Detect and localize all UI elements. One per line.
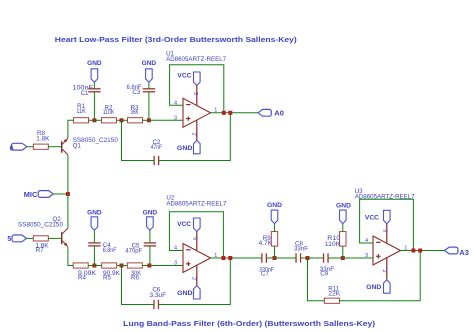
svg-text:6.8nF: 6.8nF [103, 247, 117, 254]
label 33nF C8 [294, 246, 308, 253]
label C3 [132, 89, 140, 96]
svg-text:4: 4 [174, 246, 177, 252]
wire C4-GND stub [93, 230, 95, 243]
label 1.8K R8 [36, 136, 50, 143]
wire MIC-node [53, 193, 68, 195]
svg-text:GND: GND [177, 145, 193, 152]
svg-text:GND: GND [336, 202, 351, 209]
svg-text:R6: R6 [131, 275, 139, 282]
wire node R10-U3 pin3 [343, 257, 373, 259]
resistor R9 [271, 232, 277, 247]
label R9 [263, 235, 271, 242]
node n3b junction [147, 264, 151, 268]
wire MIC node-Q2 collector [67, 194, 69, 228]
ground GND symbol U2 [194, 286, 201, 300]
capacitor C1 branch wire [93, 92, 95, 121]
pin 2 label U3 [381, 269, 387, 272]
svg-text:3: 3 [365, 253, 368, 259]
node n3 junction [147, 118, 151, 122]
junction U1 out rail [222, 111, 226, 115]
label 330nF [259, 266, 274, 273]
svg-text:33nF: 33nF [294, 246, 308, 253]
node n2b junction [120, 264, 124, 268]
ground GND symbol U3 [384, 280, 391, 294]
label Q2 [53, 216, 62, 223]
title Heart Low-Pass Filter [55, 35, 298, 44]
svg-text:47nF: 47nF [151, 144, 162, 151]
svg-text:2: 2 [190, 277, 196, 280]
label C2 [152, 139, 160, 146]
wire node3-U1 pin3 [149, 119, 183, 121]
pin 4 label U2 [174, 246, 177, 252]
capacitor C4 [88, 243, 100, 246]
wire C7-node R9 [266, 257, 274, 259]
pin 4 label U3 [365, 238, 368, 244]
junction U3 out rail [411, 249, 415, 253]
op-amp U2 [183, 244, 211, 273]
capacitor C9 [324, 253, 329, 262]
label A0 [274, 110, 284, 117]
wire R6-node3b [142, 265, 150, 267]
pin 3 label U1 [174, 115, 177, 121]
svg-text:4.7K: 4.7K [259, 240, 273, 247]
svg-text:5: 5 [381, 229, 387, 232]
pin 2 stub U2 [196, 265, 198, 285]
label 47nF [151, 144, 162, 151]
pin 5 stub U1 [196, 86, 198, 106]
svg-text:C7: C7 [261, 271, 269, 278]
op-amp U3 [373, 236, 401, 265]
wire U1 output [211, 112, 259, 114]
svg-text:GND: GND [366, 284, 381, 291]
wire port5-R7 [27, 237, 34, 239]
label 9.09K [78, 270, 97, 277]
wire R7-Q2 base [48, 237, 61, 239]
svg-text:4: 4 [365, 238, 368, 244]
svg-text:C3: C3 [132, 89, 140, 96]
svg-text:1.8K: 1.8K [36, 136, 50, 143]
wire node-C9 [308, 257, 324, 259]
label SS8050_C2150 Q2 [18, 221, 64, 228]
wire Q1 collector to R1 [68, 120, 74, 138]
svg-text:36K: 36K [130, 109, 139, 116]
node R10 junction [341, 256, 345, 260]
capacitor C4 branch wire [93, 246, 95, 266]
ground GND above C1 [91, 69, 98, 83]
label R5 [103, 275, 111, 282]
svg-text:6: 6 [10, 146, 14, 153]
label U3 [355, 188, 363, 195]
ground GND above C5 [147, 217, 154, 231]
label GND U2 [177, 290, 193, 297]
svg-text:Q1: Q1 [73, 142, 82, 149]
pin 1 label U2 [214, 253, 217, 259]
wire R4-node1b [88, 265, 94, 267]
svg-text:5: 5 [191, 237, 197, 240]
label 6.8nF C4 [103, 247, 117, 254]
svg-text:GND: GND [142, 60, 157, 67]
wire node1-R2 [94, 119, 101, 121]
label C7 [261, 271, 269, 278]
svg-text:3.3uF: 3.3uF [150, 292, 167, 299]
pin 2 stub U3 [386, 258, 388, 280]
wire C1-GND stub [93, 82, 95, 89]
svg-text:GND: GND [267, 202, 282, 209]
wire Q2 emitter to R4 [68, 247, 73, 266]
label R8 [37, 130, 45, 137]
pin 4 label U1 [174, 100, 177, 106]
label GND C3 [142, 60, 157, 67]
label 100nF [73, 84, 94, 91]
wire node2-R3 [122, 119, 128, 121]
transistor Q1 [62, 138, 68, 155]
pin 5 stub U3 [386, 224, 388, 243]
svg-text:2: 2 [381, 269, 387, 272]
junction U1 out C2 [228, 111, 232, 115]
label 6.8nF [127, 84, 142, 91]
svg-text:VCC: VCC [365, 215, 379, 222]
pin 3 label U2 [174, 261, 177, 267]
label GND R9 [267, 202, 282, 209]
svg-text:R4: R4 [78, 275, 86, 282]
port 5 [7, 235, 26, 243]
port A3 [445, 247, 458, 254]
label 22K [328, 290, 341, 297]
ground GND above R10 [340, 210, 347, 224]
pin 2 label U1 [191, 133, 197, 136]
svg-text:3: 3 [174, 261, 177, 267]
label VCC U3 [365, 215, 379, 222]
capacitor C5 branch wire [149, 246, 151, 266]
capacitor C1 [88, 89, 100, 92]
svg-text:11K: 11K [76, 108, 86, 115]
pin 2 stub U1 [196, 120, 198, 140]
svg-text:110K: 110K [325, 241, 341, 248]
capacitor C7 [262, 253, 267, 262]
svg-text:22K: 22K [328, 290, 341, 297]
wire C2-output [159, 113, 231, 161]
wire R8-Q1 base [48, 146, 61, 148]
svg-text:MIC: MIC [24, 192, 38, 199]
op-amp U1 [183, 98, 211, 127]
label R6 [131, 275, 139, 282]
label 1.8K R7 [36, 243, 50, 250]
label AD8605ARTZ-REEL7 U2 [166, 200, 227, 207]
pin 2 label U2 [190, 277, 196, 280]
label VCC U1 [177, 73, 191, 80]
pin 3 label U3 [365, 253, 368, 259]
svg-text:VCC: VCC [177, 221, 191, 228]
ground GND symbol U1 [194, 140, 201, 154]
power VCC symbol U3 [384, 210, 391, 224]
ground GND above R9 [271, 210, 278, 224]
power VCC symbol U2 [194, 218, 201, 232]
title Lung Band-Pass Filter [123, 319, 376, 328]
label AD8605ARTZ-REEL7 U3 [355, 194, 416, 201]
label GND C1 [87, 60, 102, 67]
wire Q1 emitter down [67, 155, 69, 194]
svg-text:C9: C9 [320, 271, 328, 278]
wire U2 output [211, 257, 262, 259]
capacitor C6 [154, 300, 159, 309]
port 6 [10, 143, 27, 152]
svg-text:GND: GND [87, 60, 102, 67]
wire C6-U2 output [158, 258, 230, 305]
wire node3b-U2 pin3 [150, 265, 183, 267]
wire node2b-C6 [122, 266, 154, 305]
resistor R3 [128, 118, 143, 123]
label 33nF C9 [320, 266, 335, 273]
ground GND above C4 [91, 217, 98, 231]
ground GND above C3 [146, 69, 153, 83]
resistor R10 [340, 232, 346, 247]
pin 1 label U1 [214, 108, 217, 114]
svg-text:110K: 110K [103, 109, 115, 116]
pin 5 label U1 [192, 92, 198, 95]
capacitor C2 [154, 156, 159, 165]
svg-text:470pF: 470pF [126, 247, 143, 254]
label Q1 [73, 142, 82, 149]
label C4 [103, 242, 111, 249]
wire R3-node3 [143, 119, 149, 121]
junction U3 out R11 [418, 249, 422, 253]
svg-text:R7: R7 [36, 247, 44, 254]
svg-text:4: 4 [174, 100, 177, 106]
capacitor C3 [143, 89, 155, 92]
svg-text:Heart Low-Pass Filter (3rd-Ord: Heart Low-Pass Filter (3rd-Order Butters… [55, 35, 298, 44]
wire R9 node-C8 [275, 257, 297, 259]
pin 5 stub U2 [196, 232, 198, 251]
resistor R5 [102, 263, 117, 268]
label 36K [130, 109, 139, 116]
label U2 [166, 195, 174, 202]
pin 5 label U3 [381, 229, 387, 232]
svg-text:R5: R5 [103, 275, 111, 282]
label A3 [459, 250, 469, 257]
node n1b junction [92, 264, 96, 268]
node R9 junction [273, 256, 277, 260]
wire U3 feedback rail [360, 199, 414, 250]
wire C3-GND stub [148, 82, 150, 89]
label C6 [152, 286, 160, 293]
node n1 junction [92, 118, 96, 122]
label GND C4 [87, 210, 102, 217]
label GND U1 [177, 145, 193, 152]
wire port6-R8 [27, 146, 34, 148]
svg-text:GND: GND [143, 210, 158, 217]
label R7 [36, 247, 44, 254]
resistor R1 [74, 118, 89, 123]
svg-text:A0: A0 [274, 110, 284, 117]
wire U2 feedback rail [169, 212, 223, 258]
power VCC symbol U1 [194, 72, 201, 86]
label 470pF [126, 247, 143, 254]
label GND C5 [143, 210, 158, 217]
node R11 junction [306, 256, 310, 260]
label GND R10 [336, 202, 351, 209]
svg-text:A3: A3 [459, 250, 469, 257]
resistor R6 [127, 263, 142, 268]
node MIC junction [66, 192, 70, 196]
wire U3 output [401, 250, 445, 252]
label 3.3uF [150, 292, 167, 299]
capacitor C8 [296, 253, 301, 262]
junction U2 out C6 [228, 256, 232, 260]
wire C5-GND stub [149, 230, 151, 243]
label R2 [105, 104, 113, 111]
label R11 [328, 285, 339, 292]
svg-text:AD8605ARTZ-REEL7: AD8605ARTZ-REEL7 [166, 56, 227, 63]
label GND U3 [366, 284, 381, 291]
svg-text:GND: GND [177, 290, 193, 297]
label R3 [131, 104, 139, 111]
port MIC [24, 191, 54, 200]
svg-text:5: 5 [7, 236, 11, 243]
capacitor C5 [144, 243, 156, 246]
wire R1-node1 [89, 119, 95, 121]
label U1 [166, 50, 174, 57]
svg-text:VCC: VCC [177, 73, 191, 80]
label C9 [320, 271, 328, 278]
svg-text:AD8605ARTZ-REEL7: AD8605ARTZ-REEL7 [166, 200, 227, 207]
label 4.7K [259, 240, 273, 247]
resistor R11 [324, 298, 339, 303]
wire U1 feedback rail [170, 65, 224, 113]
label 11K [76, 108, 86, 115]
wire R10 stub [342, 246, 344, 258]
label 30K [131, 270, 142, 277]
transistor Q2 [62, 228, 68, 247]
node n2 junction [120, 118, 124, 122]
pin 5 label U2 [191, 237, 197, 240]
resistor R2 [102, 118, 117, 123]
label R4 [78, 275, 86, 282]
wire R10-GND stub [342, 224, 344, 232]
label VCC U2 [177, 221, 191, 228]
wire R11-U3 output [339, 251, 420, 301]
label 110K [325, 241, 341, 248]
svg-text:3: 3 [174, 115, 177, 121]
svg-text:2: 2 [191, 133, 197, 136]
wire node2-C2 [122, 120, 155, 160]
wire C9-node R10 [328, 257, 343, 259]
label R10 [327, 235, 341, 242]
svg-text:SS8050_C2150: SS8050_C2150 [18, 221, 64, 228]
label C8 [295, 241, 303, 248]
wire node2b-R6 [122, 265, 128, 267]
wire R2-node2 [117, 119, 122, 121]
label C1 [81, 90, 89, 97]
svg-text:Lung Band-Pass Filter (6th-Ord: Lung Band-Pass Filter (6th-Order) (Butte… [123, 319, 376, 328]
wire R9-GND stub [274, 224, 276, 232]
svg-text:C1: C1 [81, 90, 89, 97]
label R1 [77, 103, 85, 110]
junction U2 out rail [221, 256, 225, 260]
wire R5-node2b [117, 265, 122, 267]
wire R9 stub [274, 246, 276, 258]
resistor R8 [33, 144, 48, 149]
svg-text:5: 5 [192, 92, 198, 95]
capacitor C3 branch wire [148, 92, 150, 121]
label 90.9K [103, 270, 121, 277]
wire C8-node R11 [301, 257, 308, 259]
wire node-R11 [308, 258, 325, 301]
resistor R7 [33, 236, 48, 241]
wire node1b-R5 [94, 265, 101, 267]
label AD8605ARTZ-REEL7 U1 [166, 56, 227, 63]
resistor R4 [73, 263, 88, 268]
svg-text:GND: GND [87, 210, 102, 217]
label SS8050_C2150 Q1 [73, 137, 119, 144]
pin 1 label U3 [404, 245, 407, 251]
label C5 [132, 242, 140, 249]
label 110K [103, 109, 115, 116]
port A0 [258, 109, 271, 116]
